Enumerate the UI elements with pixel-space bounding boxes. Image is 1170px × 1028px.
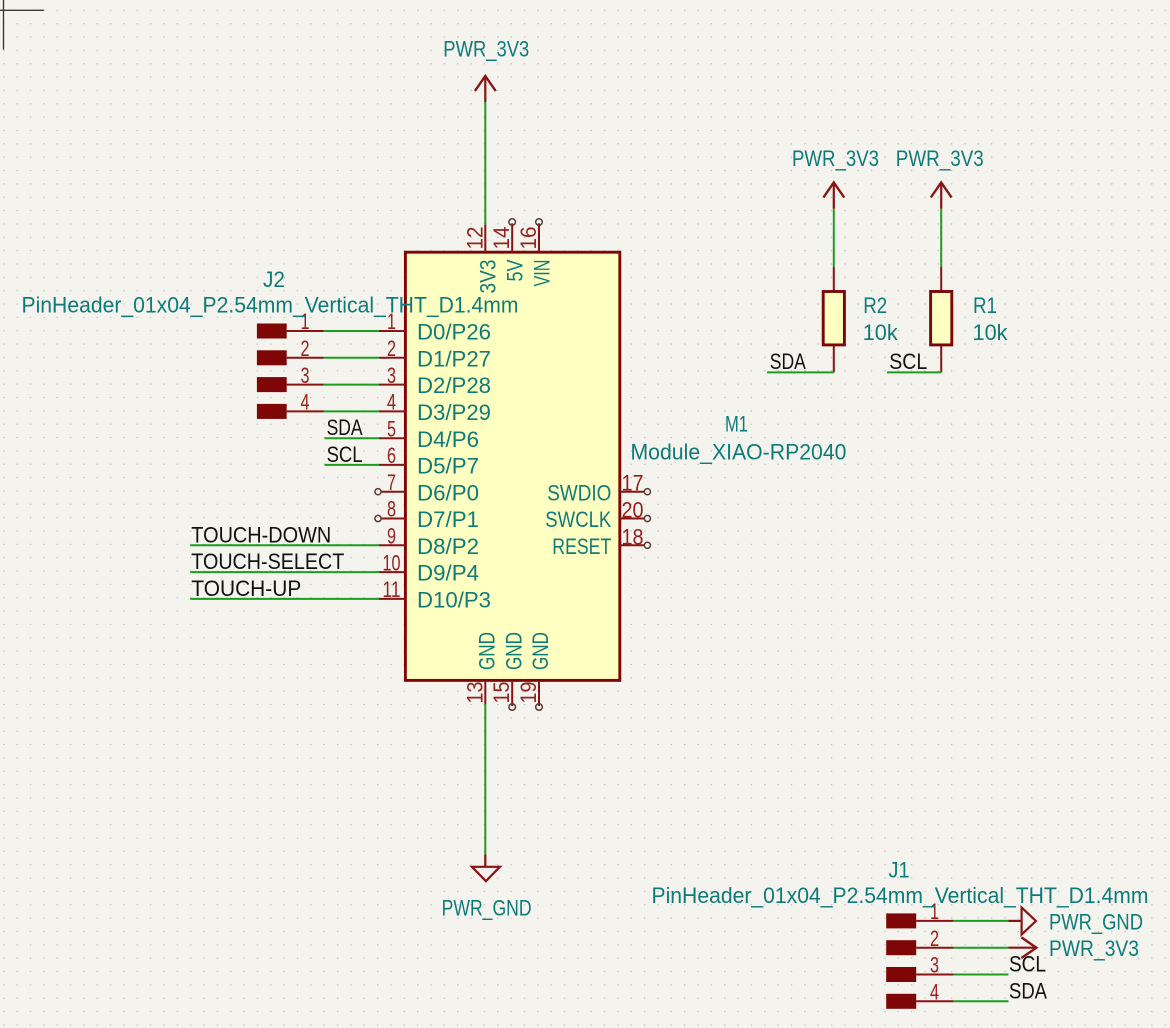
svg-text:4: 4 [930,980,939,1005]
svg-text:4: 4 [387,390,396,415]
wire TOUCH-SELECT to M1 [190,571,379,573]
svg-text:VIN: VIN [529,260,554,287]
M1 pin 5 (D4/P6) [379,437,405,439]
svg-text:PWR_GND: PWR_GND [442,896,532,921]
svg-text:R2: R2 [863,293,887,318]
pin 15 (GND) [511,680,513,706]
resistor R2 [833,267,835,291]
J1 pad pin 4 [886,994,916,1009]
svg-text:RESET: RESET [552,534,611,559]
svg-text:R1: R1 [973,293,997,318]
power symbol PWR_3V3 (top) [484,77,486,103]
svg-text:10k: 10k [863,320,899,345]
svg-text:13: 13 [462,682,487,704]
svg-text:19: 19 [516,682,541,704]
svg-text:J1: J1 [889,857,910,882]
svg-text:2: 2 [930,926,939,951]
svg-text:17: 17 [622,471,644,496]
svg-text:PWR_3V3: PWR_3V3 [792,146,879,171]
svg-text:SWCLK: SWCLK [545,507,611,532]
svg-text:PinHeader_01x04_P2.54mm_Vertic: PinHeader_01x04_P2.54mm_Vertical_THT_D1.… [652,883,1149,908]
wire pin12 to PWR_3V3 [484,102,486,225]
svg-text:5: 5 [387,416,396,441]
wire J2 pin 1 to M1 [324,330,379,332]
svg-text:PinHeader_01x04_P2.54mm_Vertic: PinHeader_01x04_P2.54mm_Vertical_THT_D1.… [22,293,519,318]
wire SDA to pin 5 [325,437,379,439]
M1 pin 7 (D6/P0) [381,491,406,493]
svg-text:16: 16 [516,227,541,250]
wire PWR_3V3 to R1 [940,209,942,267]
svg-text:3: 3 [387,363,396,388]
svg-text:GND: GND [528,632,553,670]
svg-text:SWDIO: SWDIO [547,480,611,505]
M1 pin 6 (D5/P7) [379,464,405,466]
power symbol PWR_3V3 (R1) [940,183,942,209]
svg-text:D10/P3: D10/P3 [417,588,491,613]
wire SDA to R2 [767,371,834,373]
svg-text:8: 8 [387,497,396,522]
svg-text:SCL: SCL [889,349,927,374]
power symbol PWR_GND (bottom) [484,855,486,867]
J2 pad pin 4 [257,404,287,419]
svg-text:7: 7 [387,470,396,495]
svg-text:D7/P1: D7/P1 [417,507,479,532]
M1 pin 4 (D3/P29) [379,410,405,412]
wire TOUCH-UP to M1 [190,598,379,600]
wire J2 pin 3 to M1 [324,384,379,386]
sheet origin marker [0,9,44,11]
J1 pad pin 3 [886,967,916,982]
svg-text:PWR_3V3: PWR_3V3 [896,146,984,171]
svg-text:D6/P0: D6/P0 [417,480,479,505]
svg-text:9: 9 [387,524,396,549]
power symbol PWR_GND (J1 pin 1) [1009,920,1022,922]
svg-text:SCL: SCL [327,442,363,467]
svg-text:D9/P4: D9/P4 [417,561,479,586]
wire TOUCH-DOWN to M1 [190,544,379,546]
svg-text:15: 15 [489,682,514,704]
svg-text:J2: J2 [263,267,285,292]
svg-text:D1/P27: D1/P27 [417,346,491,371]
pin 12 (3V3) [484,225,486,253]
svg-text:GND: GND [501,632,526,670]
svg-text:10: 10 [383,550,401,575]
pin 16 (VIN) [538,223,540,252]
wire J1 pin 4 [954,1000,1009,1002]
svg-text:SCL: SCL [1009,952,1046,977]
svg-text:PWR_GND: PWR_GND [1049,909,1143,934]
wire pin13 to PWR_GND [484,704,486,855]
svg-text:D8/P2: D8/P2 [417,534,479,559]
svg-text:TOUCH-DOWN: TOUCH-DOWN [191,522,331,547]
svg-text:M1: M1 [725,412,748,437]
svg-text:SDA: SDA [1009,978,1047,1003]
wire SCL to R1 [887,371,941,373]
svg-text:3: 3 [301,363,310,388]
svg-text:20: 20 [622,498,644,523]
M1 pin 10 (D9/P4) [379,571,405,573]
wire J1 pin 2 [954,947,1009,949]
svg-text:D4/P6: D4/P6 [417,427,479,452]
svg-text:12: 12 [462,227,487,250]
M1 pin 9 (D8/P2) [379,544,405,546]
M1 pin 20 (SWCLK) [620,518,645,520]
J2 pad pin 3 [257,377,287,392]
J2 pad pin 2 [257,350,287,365]
wire PWR_3V3 to R2 [833,209,835,267]
svg-text:11: 11 [383,577,401,602]
module U-body M1 [405,252,619,680]
svg-text:SDA: SDA [327,415,363,440]
pin 14 (5V) [511,223,513,252]
wire J2 pin 2 to M1 [324,357,379,359]
svg-text:6: 6 [387,443,396,468]
svg-text:TOUCH-UP: TOUCH-UP [191,576,301,601]
svg-text:4: 4 [301,390,310,415]
M1 pin 11 (D10/P3) [379,598,405,600]
power symbol PWR_3V3 (R2) [833,183,835,209]
svg-text:2: 2 [301,336,310,361]
svg-text:5V: 5V [503,260,528,282]
wire SCL to pin 6 [325,464,379,466]
svg-text:D3/P29: D3/P29 [417,400,491,425]
wire J2 pin 4 to M1 [324,410,379,412]
J1 pad pin 2 [886,940,916,955]
M1 pin 3 (D2/P28) [379,384,405,386]
M1 pin 2 (D1/P27) [379,357,405,359]
svg-text:GND: GND [475,632,500,670]
M1 pin 17 (SWDIO) [620,491,645,493]
svg-text:PWR_3V3: PWR_3V3 [1049,936,1139,961]
pin 19 (GND) [538,680,540,706]
pin 13 (GND) [484,680,486,704]
svg-text:10k: 10k [973,320,1009,345]
svg-text:18: 18 [622,524,644,549]
svg-text:Module_XIAO-RP2040: Module_XIAO-RP2040 [631,440,847,465]
svg-text:D5/P7: D5/P7 [417,454,479,479]
J1 pad pin 1 [886,913,916,928]
svg-text:PWR_3V3: PWR_3V3 [443,37,529,62]
svg-text:SDA: SDA [770,349,806,374]
M1 pin 1 (D0/P26) [379,330,405,332]
wire J1 pin 3 [954,974,1009,976]
power symbol PWR_3V3 (J1 pin 2) [1009,947,1036,949]
J2 pad pin 1 [257,324,287,339]
svg-text:TOUCH-SELECT: TOUCH-SELECT [191,549,344,574]
resistor R1 [940,267,942,291]
M1 pin 8 (D7/P1) [381,518,406,520]
M1 pin 18 (RESET) [620,544,645,546]
svg-text:2: 2 [387,336,396,361]
svg-text:D2/P28: D2/P28 [417,373,491,398]
svg-text:3V3: 3V3 [476,260,501,294]
svg-text:14: 14 [489,227,514,250]
svg-text:3: 3 [930,953,939,978]
svg-text:D0/P26: D0/P26 [417,320,491,345]
wire J1 pin 1 [954,920,1009,922]
